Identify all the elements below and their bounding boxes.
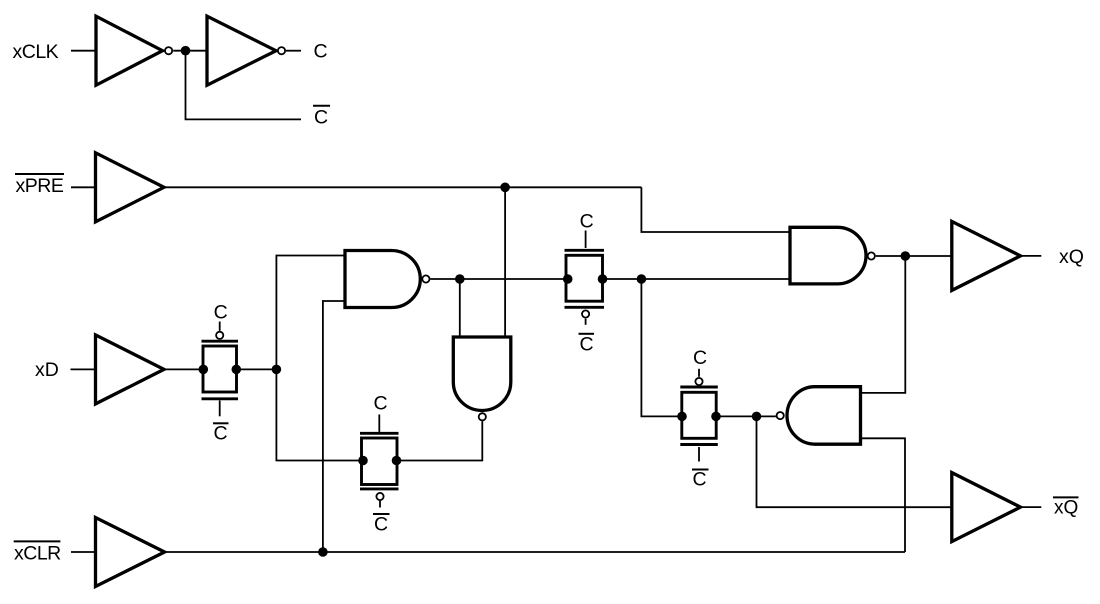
NAND U6 output bubble	[479, 413, 486, 420]
wire node D1 up to NAND U5 input 1	[276, 256, 345, 370]
TG4 left terminal dot	[677, 412, 687, 422]
wire U2 output to C	[286, 50, 301, 52]
TG3 right terminal dot	[598, 274, 608, 284]
wire TG1 output to node D1	[236, 368, 276, 370]
wire node M1 down to NAND U6 input	[459, 279, 461, 337]
NAND gate U8 (mirrored, xQbar)	[787, 387, 860, 445]
node PRE junction	[500, 183, 510, 193]
NAND gate U6 (down facing)	[453, 337, 511, 410]
wire U6 output to TG2	[397, 421, 483, 460]
svg-text:C: C	[693, 347, 707, 369]
svg-text:C: C	[214, 302, 228, 324]
wire U5 output to TG3	[430, 278, 567, 280]
wire TG4 output to NAND U8	[716, 415, 776, 417]
TG2 Cbar overline	[373, 513, 390, 515]
transmission gate TG1	[202, 322, 239, 417]
transmission gate TG2	[360, 415, 399, 508]
wire node Q down to NAND U8 input 1	[861, 256, 906, 393]
node D1 junction	[272, 365, 282, 375]
node Q junction	[901, 251, 911, 261]
wire NAND U8 input 2 to xCLR line	[861, 438, 906, 552]
svg-text:C: C	[580, 333, 594, 355]
svg-text:C: C	[314, 41, 328, 63]
node Qb junction	[752, 412, 762, 422]
NAND gate U5	[345, 251, 420, 308]
svg-text:xD: xD	[35, 359, 59, 381]
inverter U1 output bubble	[165, 47, 172, 54]
TG3 Cbar overline	[579, 333, 595, 335]
wire TG3 output to NAND U7 input 2	[603, 278, 791, 280]
TG1 Cbar overline	[213, 422, 229, 424]
wire xD to buffer U4	[71, 368, 96, 370]
wire U10 output to xQbar	[1021, 506, 1042, 508]
svg-text:xQ: xQ	[1059, 246, 1084, 268]
svg-text:C: C	[374, 393, 388, 415]
overline for xPRE	[15, 173, 64, 175]
NAND U8 output bubble	[777, 412, 784, 419]
node M1 junction	[455, 274, 465, 284]
buffer U3 (xPRE)	[96, 153, 165, 222]
node CLR junction	[318, 547, 328, 557]
NAND gate U7 (xQ)	[790, 227, 866, 284]
overline for xQbar	[1053, 496, 1079, 498]
buffer U11 (xCLR)	[96, 518, 165, 587]
TG2 right terminal dot	[392, 456, 402, 466]
wire U9 output to xQ	[1021, 255, 1042, 257]
wire U4 output to TG1	[164, 368, 203, 370]
buffer U10 (xQbar)	[952, 473, 1021, 542]
svg-text:C: C	[314, 107, 328, 129]
wire xPRE to NAND U7 input 1	[641, 187, 790, 232]
transmission gate TG3	[565, 231, 605, 325]
overline for xCLR	[14, 540, 61, 542]
svg-text:xCLR: xCLR	[14, 542, 61, 564]
wire xCLR vertical to NAND U5 input 2	[323, 301, 345, 552]
svg-text:xQ: xQ	[1054, 498, 1078, 519]
overline for Cbar (top)	[313, 105, 330, 107]
wire node Qb down to buffer U10	[757, 416, 952, 507]
buffer U4 (xD)	[96, 335, 165, 404]
wire xCLK to inverter U1	[71, 50, 96, 52]
inverter U1	[96, 16, 163, 85]
svg-text:xPRE: xPRE	[16, 175, 64, 197]
NAND U7 output bubble	[868, 252, 875, 259]
wire xCLR to buffer U11	[71, 551, 96, 553]
wire U7 output to buffer U9	[876, 255, 952, 257]
transmission gate TG4	[680, 369, 718, 462]
svg-text:C: C	[580, 211, 594, 233]
buffer U9 (xQ)	[952, 221, 1021, 290]
TG4 right terminal dot	[711, 412, 721, 422]
svg-text:xCLK: xCLK	[13, 41, 59, 63]
inverter U2	[207, 16, 276, 85]
TG1 left terminal dot	[199, 365, 209, 375]
wire node S1 down to TG4	[641, 279, 682, 416]
TG4 Cbar overline	[692, 469, 709, 471]
svg-text:C: C	[693, 469, 707, 491]
node CLK1 junction	[181, 46, 191, 56]
wire xPRE line right	[164, 186, 641, 188]
svg-text:C: C	[374, 514, 388, 536]
wire xPRE to buffer U3	[71, 186, 95, 188]
wire node D1 down to TG2	[276, 369, 363, 460]
inverter U2 output bubble	[278, 47, 285, 54]
NAND U5 output bubble	[422, 275, 429, 282]
TG1 right terminal dot	[232, 365, 242, 375]
svg-text:C: C	[214, 423, 228, 445]
node S1 junction	[637, 274, 647, 284]
wire PRE node down to NAND U6 input	[504, 187, 506, 337]
TG3 left terminal dot	[563, 274, 573, 284]
wire xCLR line right	[165, 551, 905, 553]
wire node CLK1 down	[186, 51, 302, 120]
TG2 left terminal dot	[358, 456, 368, 466]
wire U1 output to inverter U2	[173, 50, 207, 52]
